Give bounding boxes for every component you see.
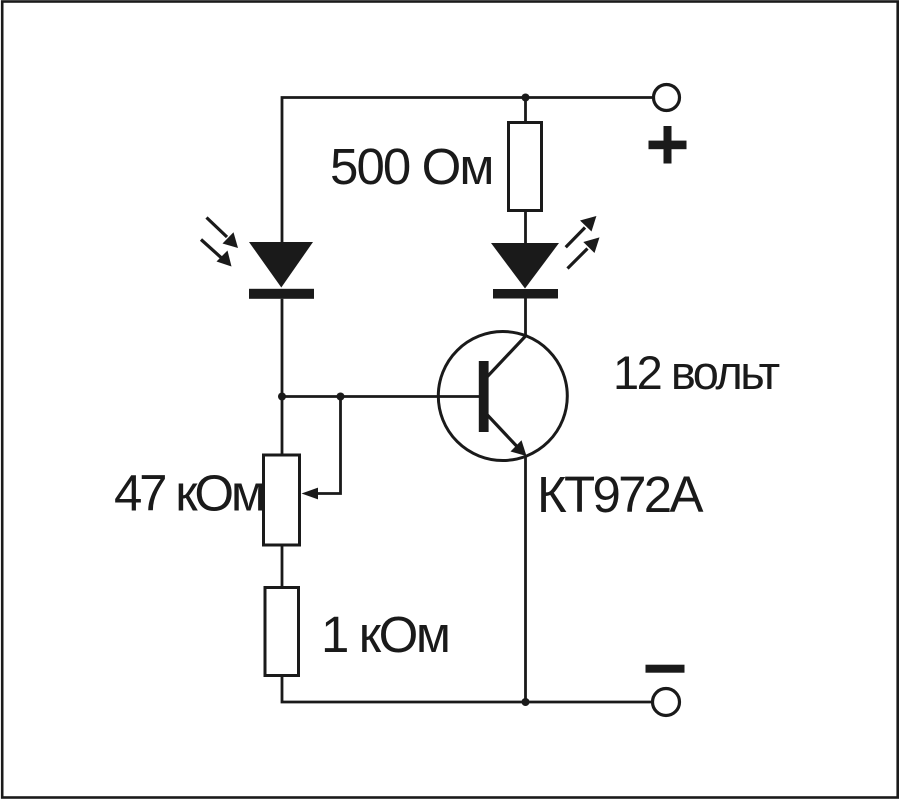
- wire base rail: [282, 395, 480, 398]
- terminal + circle: [654, 85, 680, 111]
- terminal - circle: [653, 689, 680, 716]
- junction node base rail / VD1: [278, 393, 286, 401]
- svg-text:47 кОм: 47 кОм: [114, 465, 263, 522]
- wire R3 bottom lead and bottom rail: [282, 676, 652, 703]
- potentiometer R2 body: [264, 455, 300, 545]
- resistor R1 body: [509, 123, 542, 211]
- photodiode VD1: [201, 218, 314, 299]
- minus sign: [646, 665, 685, 673]
- wire emitter down to bottom rail: [524, 458, 527, 703]
- plus sign: [649, 126, 687, 164]
- svg-text:КТ972А: КТ972А: [537, 466, 703, 523]
- transistor VT1: [438, 332, 567, 461]
- wire R1 top lead: [524, 98, 527, 124]
- wire R1 bottom lead to LED: [524, 211, 527, 245]
- svg-text:12 вольт: 12 вольт: [613, 346, 780, 399]
- junction node base rail / wiper: [337, 393, 345, 401]
- junction node at top rail / R1: [522, 94, 530, 102]
- wire LED cathode down to transistor collector: [524, 299, 527, 337]
- wire top rail: [282, 98, 653, 244]
- wire pot bottom to R3: [281, 545, 284, 588]
- wire pot top lead: [281, 397, 284, 456]
- resistor R3 body: [265, 588, 299, 676]
- junction node bottom rail / emitter: [522, 698, 530, 706]
- wiper arm of R2: [302, 397, 341, 500]
- wire VD1 cathode down to base rail: [281, 299, 284, 397]
- LED VD2: [491, 216, 600, 299]
- svg-text:1 кОм: 1 кОм: [321, 606, 449, 663]
- svg-text:500 Ом: 500 Ом: [330, 138, 493, 195]
